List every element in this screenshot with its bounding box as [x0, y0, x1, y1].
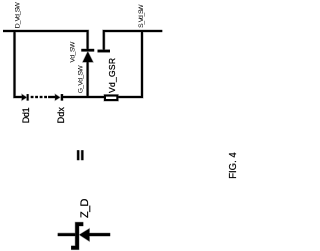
svg-text:Z_D: Z_D [79, 198, 91, 218]
svg-text:S_Vd_SW: S_Vd_SW [138, 4, 145, 28]
svg-text:FIG. 4: FIG. 4 [228, 152, 239, 179]
svg-text:D_Vd_SW: D_Vd_SW [14, 2, 21, 29]
svg-text:Dd1: Dd1 [21, 107, 31, 123]
svg-text:Ddx: Ddx [56, 107, 66, 124]
svg-text:Vd_GSR: Vd_GSR [107, 58, 117, 93]
svg-text:Vd_SW: Vd_SW [70, 41, 77, 63]
svg-text:G_Vd_SW: G_Vd_SW [78, 65, 85, 94]
